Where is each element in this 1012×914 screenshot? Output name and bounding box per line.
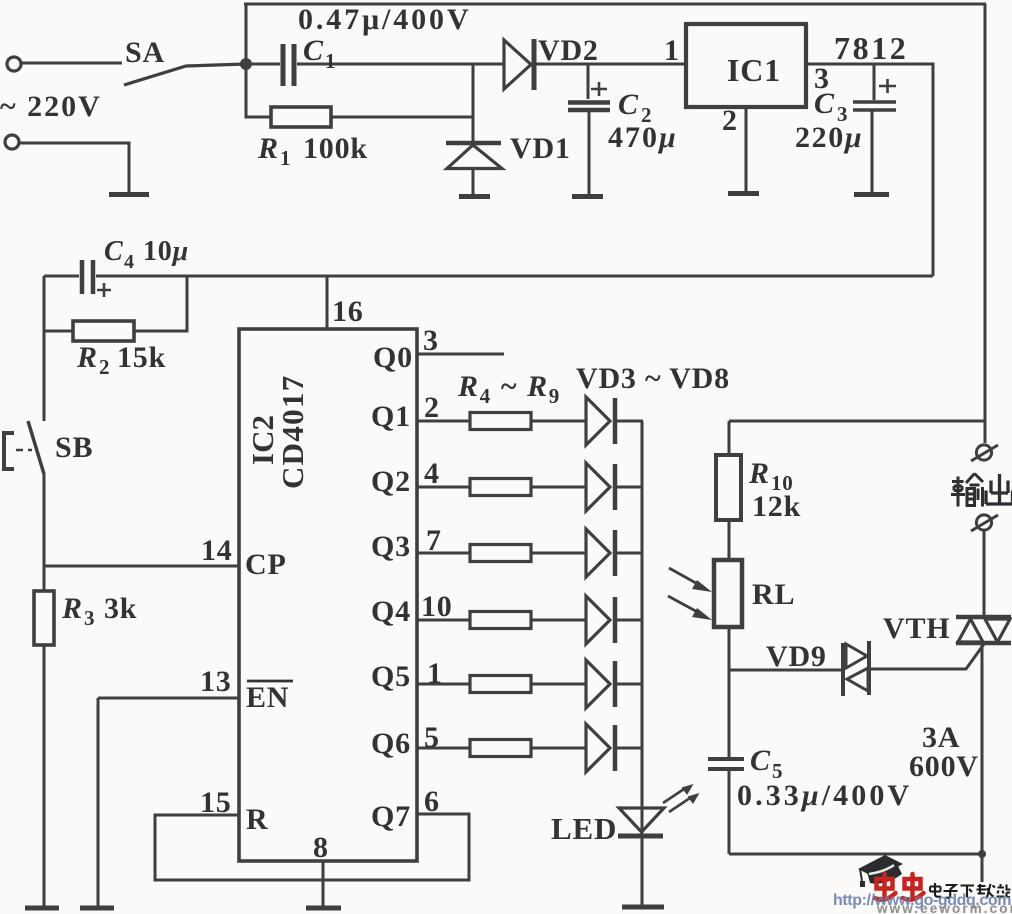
svg-text:C: C	[303, 34, 324, 67]
svg-text:VD1: VD1	[510, 132, 571, 165]
svg-text:CP: CP	[245, 548, 287, 581]
svg-text:1: 1	[664, 34, 680, 67]
svg-text:4: 4	[424, 457, 440, 490]
svg-text:3k: 3k	[104, 592, 137, 625]
svg-text:R: R	[61, 592, 83, 625]
svg-text:600V: 600V	[909, 750, 979, 783]
svg-text:RL: RL	[752, 578, 795, 611]
svg-text:VD2: VD2	[538, 34, 599, 67]
svg-text:VTH: VTH	[883, 612, 950, 645]
svg-text:C: C	[104, 236, 123, 267]
svg-text:100k: 100k	[303, 132, 368, 165]
svg-text:0.33μ/400V: 0.33μ/400V	[737, 779, 912, 812]
svg-text:8: 8	[313, 831, 329, 864]
svg-text:SB: SB	[55, 431, 93, 464]
svg-text:Q6: Q6	[371, 727, 411, 760]
svg-text:R4 ~ R9: R4 ~ R9	[457, 370, 561, 408]
svg-text:470μ: 470μ	[608, 121, 678, 154]
svg-text:Q2: Q2	[371, 465, 411, 498]
svg-text:16: 16	[332, 295, 364, 328]
svg-text:3: 3	[423, 324, 439, 357]
svg-text:VD9: VD9	[766, 640, 827, 673]
svg-text:13: 13	[200, 665, 232, 698]
svg-text:3: 3	[84, 606, 95, 630]
svg-text:CD4017: CD4017	[275, 374, 310, 489]
svg-text:14: 14	[201, 534, 233, 567]
svg-text:Q3: Q3	[371, 530, 411, 563]
svg-text:Q7: Q7	[371, 800, 411, 833]
svg-text:10: 10	[421, 590, 453, 623]
svg-text:R: R	[246, 803, 268, 836]
svg-text:C: C	[618, 88, 639, 121]
svg-text:Q4: Q4	[371, 595, 411, 628]
svg-text:2: 2	[424, 391, 440, 424]
svg-text:1: 1	[280, 146, 291, 170]
svg-text:2: 2	[722, 104, 738, 137]
svg-text:R: R	[748, 457, 770, 490]
svg-text:15k: 15k	[117, 341, 166, 374]
svg-text:4: 4	[124, 251, 135, 273]
svg-text:SA: SA	[125, 36, 165, 69]
svg-text:~ 220V: ~ 220V	[0, 90, 102, 123]
svg-text:220μ: 220μ	[795, 121, 863, 154]
svg-text:0.47μ/400V: 0.47μ/400V	[298, 3, 472, 36]
svg-text:2: 2	[99, 355, 110, 379]
svg-text:EN: EN	[246, 681, 289, 714]
svg-text:R: R	[257, 132, 279, 165]
svg-text:1: 1	[325, 49, 336, 73]
svg-text:R: R	[76, 341, 98, 374]
svg-text:LED: LED	[551, 811, 617, 846]
svg-text:Q0: Q0	[373, 341, 413, 374]
svg-text:12k: 12k	[752, 490, 801, 523]
svg-text:VD3 ~ VD8: VD3 ~ VD8	[576, 362, 730, 395]
svg-text:15: 15	[200, 786, 232, 819]
svg-text:7: 7	[426, 524, 442, 557]
svg-text:C: C	[750, 744, 771, 777]
svg-text:1: 1	[427, 657, 443, 690]
svg-text:IC1: IC1	[727, 52, 781, 88]
svg-text:Q1: Q1	[371, 400, 411, 433]
svg-text:5: 5	[424, 721, 440, 754]
svg-text:Q5: Q5	[371, 660, 411, 693]
svg-text:7812: 7812	[834, 30, 908, 66]
svg-text:C: C	[814, 87, 835, 120]
svg-text:6: 6	[424, 785, 440, 818]
svg-text:10μ: 10μ	[143, 236, 189, 267]
svg-text:www.eeworm.com: www.eeworm.com	[876, 901, 1012, 914]
